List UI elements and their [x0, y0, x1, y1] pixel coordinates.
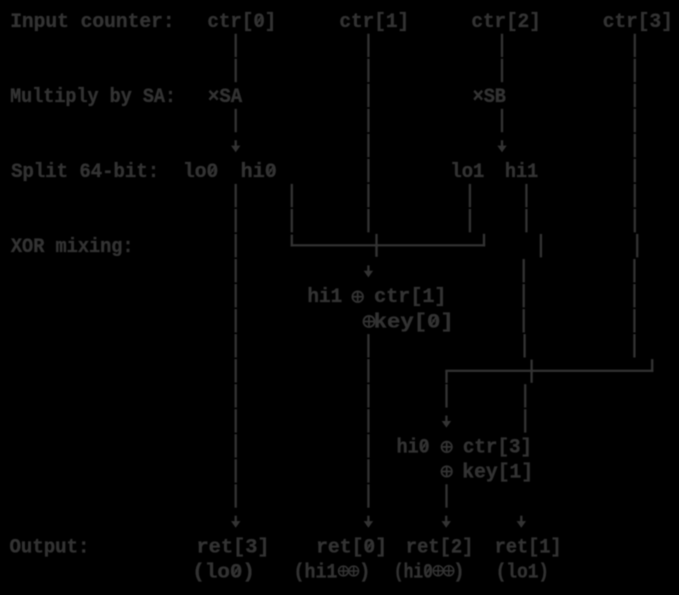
svg-text:lo0: lo0 [183, 161, 218, 184]
arrow into hi1^ctr[1] xor [364, 265, 373, 277]
wire collector1 right corner stem [483, 234, 485, 247]
wire collector2 right corner stem up [651, 359, 653, 372]
wire xor1 result column row 13 [367, 334, 369, 357]
XOR symbol xor2 key plus [442, 466, 452, 476]
slashed zero in hi0 [269, 167, 274, 175]
wire lo0 pass-through row 15 [235, 384, 237, 407]
wire lo0 pass-through row 10 [235, 259, 237, 282]
wire ctr[3] column row 1 [634, 34, 636, 57]
wire xor1 result column row 15 [367, 384, 369, 407]
svg-text:hi1: hi1 [307, 286, 342, 309]
wire ctr[3] column row 9 (jog) [636, 234, 638, 257]
svg-text:hi0: hi0 [241, 161, 277, 184]
arrow into ret[1] [517, 516, 526, 528]
svg-text:ctr[2]: ctr[2] [471, 11, 540, 34]
wire collector1 left corner stem [291, 235, 293, 247]
wire hi1 column row 13 [523, 334, 525, 357]
wire collector2 horizontal [445, 370, 653, 372]
wire ctr[3] column row 6 [634, 159, 636, 182]
wire lo1 drop row 8 [469, 209, 471, 232]
arrow into hi0^ctr[3] xor [442, 416, 451, 428]
wire ctr[3] column row 10 [633, 259, 635, 282]
svg-text:hi1: hi1 [505, 161, 538, 184]
wire hi1 column row 16 [524, 409, 526, 432]
wire ctr[1] column row 2 [367, 59, 369, 82]
wire ctr[3] column row 8 [634, 209, 636, 232]
svg-text:ctr[0]: ctr[0] [207, 11, 276, 34]
svg-text:ret[1]: ret[1] [495, 537, 562, 560]
wire hi1 column row 15 [524, 384, 526, 407]
wire ctr[3] column row 12 [633, 309, 635, 332]
XOR symbol note hi0 xor b [444, 566, 454, 576]
arrow into ret[0] [364, 516, 373, 528]
wire ctr[2] column row 2 [501, 59, 503, 82]
wire xor2 result row 19 [445, 484, 447, 507]
wire lo0 pass-through row 18 [235, 459, 237, 482]
wire ctr[3] column row 3 [634, 84, 636, 107]
wire ctr[3] column row 5 [634, 134, 636, 157]
wire lo0 pass-through row 9 [235, 234, 237, 257]
wire ctr[2] column row 4 [501, 109, 503, 132]
svg-text:Input counter:: Input counter: [10, 11, 175, 34]
svg-text:Multiply by SA:: Multiply by SA: [10, 86, 176, 109]
svg-text:): ) [359, 562, 370, 585]
wire hi1 column row 9 (jog) [540, 234, 542, 257]
wire xor1 result column row 16 [367, 409, 369, 432]
arrow into ret[2] [442, 516, 451, 528]
svg-text:ctr[3]: ctr[3] [463, 436, 532, 459]
svg-text:key[0]: key[0] [374, 311, 454, 334]
wire lo0 pass-through row 16 [235, 409, 237, 432]
wire xor1 result column row 18 [367, 459, 369, 482]
wire ctr[0] column row 2 [235, 59, 237, 82]
wire ctr[0] column row 1 [235, 34, 237, 57]
wire ctr[1] column row 7 [367, 184, 369, 207]
wire ctr[1] column row 8 [367, 209, 369, 232]
XOR symbol note hi0 xor a [433, 566, 443, 576]
wire lo0 pass-through row 11 [235, 284, 237, 307]
svg-text:Split 64-bit:: Split 64-bit: [11, 161, 159, 184]
svg-text:hi0: hi0 [397, 436, 430, 459]
wire xor1 result column row 17 [367, 434, 369, 457]
slashed zero in hi0 operand [422, 442, 427, 450]
slashed zero in ret[0] [367, 542, 372, 550]
XOR symbol xor1 key plus [364, 316, 375, 327]
XOR symbol note hi1 xor b [349, 566, 359, 576]
wire collector1 tee stem [375, 246, 377, 257]
wire collector2 left corner stem down [445, 371, 447, 383]
wire lo0 pass-through row 7 [235, 184, 237, 207]
wire hi0 drop row 7 [291, 184, 293, 207]
svg-text:(lo0): (lo0) [192, 562, 255, 585]
svg-text:ctr[1]: ctr[1] [374, 286, 446, 309]
wire lo1 drop row 7 [469, 184, 471, 207]
svg-text:ctr[1]: ctr[1] [339, 11, 409, 34]
svg-text:ret[3]: ret[3] [197, 537, 270, 560]
XOR symbol note hi1 xor a [339, 566, 349, 576]
wire xor1 result column row 14 [367, 359, 369, 382]
wire hi1 column row 12 [523, 309, 525, 332]
wire ctr[1] column row 5 [367, 134, 369, 157]
svg-text:×SA: ×SA [208, 86, 242, 109]
wire ctr[3] column row 7 [634, 184, 636, 207]
wire ctr[1] column row 1 [367, 34, 369, 57]
wire lo0 pass-through row 14 [235, 359, 237, 382]
wire hi1 column row 11 [523, 284, 525, 307]
svg-text:XOR mixing:: XOR mixing: [11, 236, 134, 259]
svg-text:(hi1: (hi1 [294, 562, 338, 585]
slashed zero in key[0] [432, 317, 437, 325]
arrow into split lo0/hi0 [231, 140, 240, 152]
wire lo0 pass-through row 12 [235, 309, 237, 332]
arrow into ret[3] [231, 516, 240, 528]
slashed zero in ctr[0] [257, 16, 262, 24]
svg-text:(lo1): (lo1) [496, 562, 549, 585]
wire lo0 pass-through row 8 [235, 209, 237, 232]
wire cross at XOR collector 1 [375, 234, 377, 257]
wire ctr[3] column row 13 [633, 334, 635, 357]
svg-text:ret[2]: ret[2] [406, 537, 474, 560]
wire ctr[0] column row 4 [235, 109, 237, 132]
wire hi0 drop row 8 [291, 209, 293, 232]
wire ctr[1] column row 6 [367, 159, 369, 182]
slashed zero in lo0 [210, 167, 215, 175]
wire hi1 drop row 7 [525, 184, 527, 207]
wire lo0 pass-through row 17 [235, 434, 237, 457]
wire ctr[2] column row 1 [501, 34, 503, 57]
wire hi1 drop row 8 [525, 209, 527, 232]
svg-text:ret[0]: ret[0] [316, 537, 387, 560]
wire collector1 horizontal [291, 244, 486, 246]
svg-text:Output:: Output: [10, 537, 90, 560]
XOR symbol xor1 plus [352, 291, 363, 302]
wire ctr[1] column row 4 [367, 109, 369, 132]
svg-text:key[1]: key[1] [462, 461, 533, 484]
slashed zero in (lo0) [234, 567, 239, 575]
wire ctr[3] column row 4 [634, 109, 636, 132]
wire lo0 pass-through row 13 [235, 334, 237, 357]
svg-text:×SB: ×SB [473, 86, 506, 109]
svg-text:): ) [453, 562, 464, 585]
wire hi1 crossing collector 2 [530, 360, 532, 383]
svg-text:lo1: lo1 [450, 161, 484, 184]
wire xor2 drop row 15 [445, 384, 447, 407]
wire hi1 column row 10 [523, 259, 525, 282]
slashed zero in (hi0 [426, 567, 431, 575]
wire lo0 pass-through row 19 [235, 484, 237, 507]
svg-text:ctr[3]: ctr[3] [603, 11, 673, 34]
arrow into split lo1/hi1 [497, 140, 506, 152]
wire ctr[1] column row 3 [367, 84, 369, 107]
wire ctr[3] column row 11 [633, 284, 635, 307]
wire xor1 result column row 19 [367, 484, 369, 507]
XOR symbol xor2 plus [442, 442, 452, 452]
wire ctr[3] column row 2 [634, 59, 636, 82]
